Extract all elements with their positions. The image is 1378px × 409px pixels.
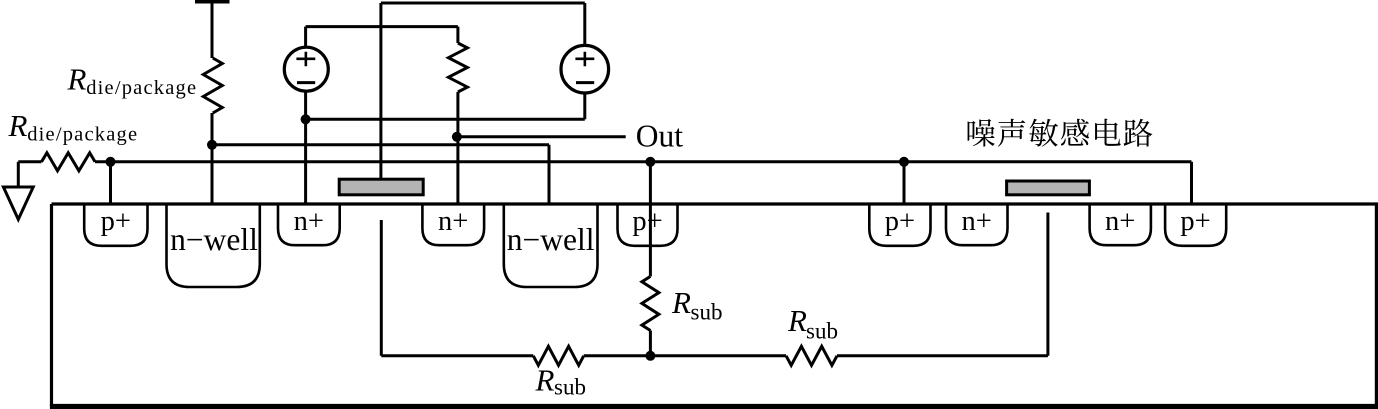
svg-text:n+: n+ [294,206,324,237]
wire resistor bottom to node A and down to n-well A [211,113,214,204]
wire R2 bottom down to n+ B (through Out node) [456,92,459,204]
wire V2 bottom vertical [583,92,586,119]
junction node D3 [645,157,655,167]
wire substrate net right segment [650,354,1048,357]
wire top loop left vertical down to gate G1 [379,3,382,178]
resistor R2 (vertical, middle) [448,43,467,92]
wire channel below G1 down to substrate net [380,220,383,356]
voltage source V2 [561,45,609,93]
svg-text:R: R [787,303,807,338]
p+ diffusion P1 [84,204,147,246]
resistor R_sub (vertical) [642,276,659,330]
svg-text:p+: p+ [885,206,915,237]
wire R2 top vertical [456,27,459,43]
wire R_sub vertical bottom to node D5 [649,331,652,356]
svg-text:R: R [8,108,28,143]
wire rail right end down to p+ D [1190,162,1193,204]
wire V1 top vertical [304,27,307,47]
wire top loop horizontal [381,2,585,5]
MOS gate G2 (sensitive circuit) [1007,181,1090,195]
voltage source V1 [284,47,328,91]
n+ diffusion N2 [422,204,484,245]
wire channel below G2 down to substrate net [1046,213,1049,356]
MOS gate G1 (noisy circuit) [339,179,423,195]
svg-text:die/package: die/package [86,77,197,99]
ground symbol [3,187,33,219]
svg-text:sub: sub [691,300,723,325]
wire ground rail left down-turn [17,162,20,187]
svg-text:R: R [671,285,691,320]
junction node D2 [106,157,116,167]
resistor R_die/package (horizontal, left) [42,153,96,171]
junction node D6 [301,114,311,124]
wire V1 node down to n+ A [304,119,307,204]
p+ diffusion P4 [1165,204,1226,246]
svg-text:p+: p+ [101,206,131,237]
svg-text:p+: p+ [632,206,662,237]
n+ diffusion N4 [1090,204,1151,245]
wire node A to n-well B [212,145,549,204]
svg-text:sub: sub [554,375,586,400]
junction node D5 [645,351,655,361]
n-well B [504,204,598,287]
wire VDD bar to resistor Rdie/package top [211,2,214,58]
wire source V1 top to resistor R2 top [306,25,458,28]
wire D2 down to p+ A [109,162,112,204]
junction node D4 [899,157,909,167]
wire D4 down to p+ C [903,162,906,204]
svg-text:n+: n+ [962,206,992,237]
wire ground rail horizontal [18,160,1191,163]
resistor R_sub (horizontal left) [533,346,583,365]
svg-text:n−well: n−well [170,222,258,257]
svg-text:n+: n+ [1105,206,1135,237]
svg-text:R: R [535,363,555,398]
svg-text:n+: n+ [438,206,468,237]
svg-text:R: R [67,62,87,97]
svg-text:sub: sub [806,319,838,344]
wire V1 bottom to V2 bottom [306,118,585,121]
p+ diffusion P3 [869,204,930,246]
junction node A [207,140,217,150]
n-well A [167,204,260,287]
substrate box [52,204,1377,406]
label noise-sensitive circuit (Chinese) [968,119,1153,147]
resistor R_die/package (vertical) [203,58,222,113]
wire substrate net left segment [381,354,650,357]
svg-text:n−well: n−well [507,222,595,257]
wire top loop right vertical down to source V2 [583,3,586,46]
svg-text:die/package: die/package [27,124,138,146]
wire V1 bottom to node D6 [304,92,307,119]
n+ diffusion N1 [278,204,340,245]
p+ diffusion P2 [618,204,678,246]
svg-text:p+: p+ [1180,206,1210,237]
n+ diffusion N3 [946,204,1008,245]
junction node Out [452,132,462,142]
power supply bar VDD [195,0,230,4]
wire D3 down through p+ B to R_sub vertical [649,162,652,277]
wire Out [457,135,626,138]
svg-text:Out: Out [636,119,683,154]
resistor R_sub (horizontal right) [786,346,837,365]
